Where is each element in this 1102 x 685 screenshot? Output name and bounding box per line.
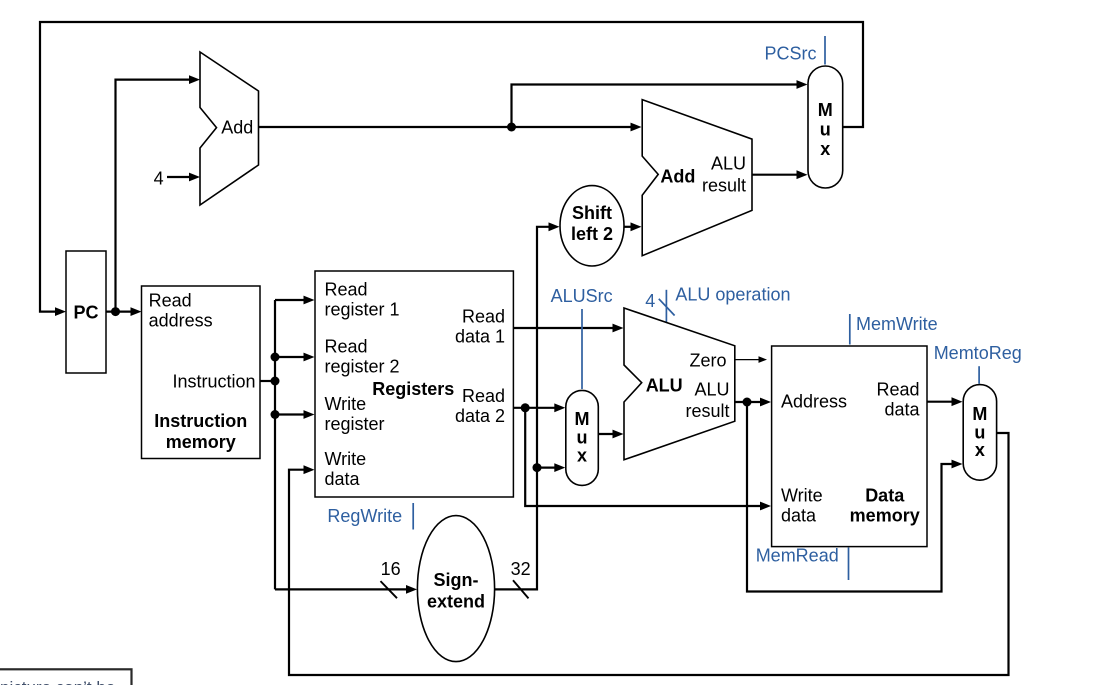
picture placeholder box (clipped, bottom-left) [0,669,132,685]
wire ALUSrc mux output to ALU bottom input [598,433,615,435]
svg-text:data 2: data 2 [455,406,505,426]
ALU operation control line [665,290,667,323]
wire Shift left 2 output to branch Add bottom input [624,226,633,228]
junction bus Write register [271,410,280,419]
RegWrite control line [412,503,414,530]
svg-text:Instruction: Instruction [172,372,255,392]
junction PC output [111,307,120,316]
svg-text:M: M [575,409,590,429]
svg-text:Write: Write [325,394,367,414]
svg-text:Read: Read [462,307,505,327]
ALUSrc control line [581,309,583,389]
wire PC output to Instruction memory Read address [106,311,133,313]
svg-text:16: 16 [381,559,401,579]
svg-text:Write: Write [325,449,367,469]
svg-text:Data: Data [865,486,905,506]
wire Read data 2 down to Data memory Write data [525,408,763,506]
svg-text:ALU: ALU [711,153,746,173]
MemtoReg control line [978,366,980,384]
arrow into MemtoReg mux top input [952,397,963,406]
svg-text:Add: Add [221,117,253,137]
svg-text:data: data [884,400,920,420]
arrow into PCSrc mux bottom input [797,170,808,179]
svg-text:MemWrite: MemWrite [856,314,938,334]
wire Sign-extend output up to Shift left 2 and mux [495,227,551,590]
arrow into Read register 1 [304,296,315,305]
svg-text:extend: extend [427,592,485,612]
svg-text:Zero: Zero [689,351,726,371]
svg-text:result: result [685,401,729,421]
svg-text:Read: Read [876,380,919,400]
arrow ALU Zero output [759,356,768,363]
svg-text:Read: Read [325,280,368,300]
svg-text:Address: Address [781,392,847,412]
wire PC+4 up-branch to PCSrc mux top input [512,85,800,128]
junction ALU result split [743,398,752,407]
svg-text:result: result [702,176,746,196]
svg-text:Sign-: Sign- [434,570,479,590]
arrow into Read address [131,307,142,316]
wire bus to Read register 2 [275,356,306,358]
ALU shape [624,308,735,460]
MemRead control line [848,548,850,581]
wire PC value up to Add (PC+4) top input [116,80,192,312]
svg-text:MemRead: MemRead [756,546,839,566]
svg-text:data 1: data 1 [455,327,505,347]
adder Add (PC+4) [200,52,259,205]
ALU operation bus-width slash [659,299,675,316]
svg-text:Write: Write [781,486,823,506]
wire PCSrc-mux output feedback loop to PC [40,22,863,312]
sign-extend ellipse [417,516,494,662]
svg-text:u: u [820,120,831,140]
wire constant 4 into Add lower input [167,176,191,178]
wire instruction bus vertical [274,300,276,589]
wire bus to Read register 1 [275,299,306,301]
wire ALU result to Data memory Address [735,401,763,403]
wire Read data 1 to ALU top input [513,327,615,329]
wire ALU Zero output [735,359,760,361]
arrow into PC [55,307,66,316]
svg-text:data: data [325,469,361,489]
MemWrite control line [849,314,851,345]
svg-text:register 2: register 2 [325,357,400,377]
svg-text:ALU: ALU [694,379,729,399]
wire PC+4 from Add output to branch Add top input [259,126,634,128]
junction sign-extend split [533,463,542,472]
svg-text:Read: Read [325,337,368,357]
svg-text:ALUSrc: ALUSrc [551,286,613,306]
svg-text:register: register [325,414,385,434]
svg-text:x: x [820,139,830,159]
svg-text:M: M [972,404,987,424]
arrow ALU result into Address [760,398,771,407]
wire Read data 2 to ALUSrc mux top input [513,407,557,409]
arrow into Write data of Registers [304,465,315,474]
arrow into ALU bottom input [613,430,624,439]
svg-text:Read: Read [462,386,505,406]
svg-text:data: data [781,506,817,526]
wire Data memory Read data to MemtoReg mux top input [927,401,953,403]
arrow into Shift left 2 [549,222,560,231]
svg-text:M: M [818,100,833,120]
junction PC+4 split [507,123,516,132]
wire Instruction output to bus [260,380,275,382]
svg-text:picture can’t be: picture can’t be [0,678,115,685]
mux MemtoReg [963,385,996,481]
arrow into Data memory Write data [760,502,771,511]
junction bus Read register 2 [271,353,280,362]
arrow into Read register 2 [304,353,315,362]
svg-text:RegWrite: RegWrite [327,506,402,526]
instruction memory box [142,286,261,459]
data memory box [772,346,927,547]
wire MemtoReg mux output writeback to Registers Write data [289,433,1009,675]
arrow into MemtoReg mux bottom input [952,460,963,469]
svg-text:address: address [149,311,213,331]
arrow into PCSrc mux top input [797,80,808,89]
bus width slash 16 [381,581,398,598]
svg-text:register 1: register 1 [325,300,400,320]
arrow into branch Add bottom input [631,222,642,231]
arrow into Sign-extend [406,585,417,594]
mux PCSrc [808,66,843,188]
arrow constant 4 into Add [189,173,200,182]
svg-text:left 2: left 2 [571,224,613,244]
arrow into branch Add top input [631,123,642,132]
arrow into ALU top input [613,324,624,333]
mux ALUSrc [566,390,599,485]
svg-text:4: 4 [154,169,164,189]
svg-text:PCSrc: PCSrc [764,44,816,64]
svg-text:PC: PC [73,302,98,322]
svg-text:MemtoReg: MemtoReg [934,343,1022,363]
svg-text:Registers: Registers [372,379,454,399]
svg-text:x: x [577,446,587,466]
register PC [66,251,106,373]
svg-text:Shift: Shift [572,203,612,223]
wire bus to Write register [275,413,306,415]
svg-text:memory: memory [166,432,236,452]
svg-text:Instruction: Instruction [154,411,247,431]
svg-text:ALU: ALU [646,375,683,395]
svg-text:Read: Read [149,291,192,311]
bus width slash 32 [513,580,529,598]
wire ALU result down-around to MemtoReg mux bottom input [747,402,954,592]
svg-text:ALU operation: ALU operation [675,285,790,305]
svg-text:u: u [577,428,588,448]
shift left 2 ellipse [560,186,624,266]
PCSrc control line [824,36,826,65]
svg-text:memory: memory [850,506,920,526]
registers box [315,271,513,497]
wire branch Add ALU result to PCSrc mux bottom input [752,174,799,176]
junction Read data 2 split [521,403,530,412]
arrow into Write register [304,410,315,419]
arrow into ALUSrc mux bottom input [554,463,565,472]
wire branch to ALUSrc mux bottom input [537,467,557,469]
svg-text:32: 32 [511,559,531,579]
junction bus Instruction [271,377,280,386]
svg-text:4: 4 [645,291,655,311]
adder Add (branch target) [642,100,752,256]
svg-text:Add: Add [660,167,695,187]
arrow into ALUSrc mux top input [554,403,565,412]
svg-text:x: x [975,440,985,460]
wire bus immediate field to Sign-extend [275,588,409,590]
arrow into Add top input [189,75,200,84]
